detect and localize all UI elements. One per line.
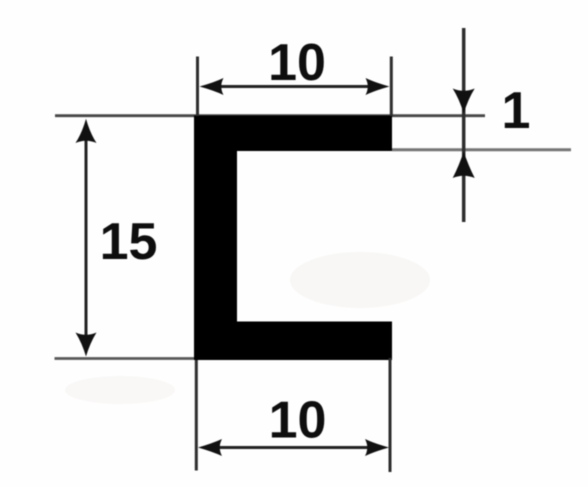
svg-text:10: 10 (269, 392, 327, 450)
svg-text:10: 10 (268, 34, 326, 92)
svg-text:1: 1 (502, 82, 531, 140)
svg-text:15: 15 (100, 213, 158, 271)
